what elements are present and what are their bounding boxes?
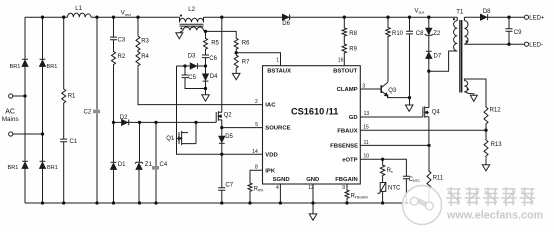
junction R6 R7 BSTAUX node [235, 51, 238, 54]
ground L2 aux [176, 33, 183, 39]
svg-text:VDD: VDD [265, 152, 277, 158]
wire aux to R6 [206, 31, 237, 36]
resistor RIPK [248, 181, 252, 193]
junction C_NTC / bottom rail [405, 201, 408, 204]
svg-text:D5: D5 [225, 134, 233, 140]
wire FBAUX [360, 129, 486, 131]
junction Z1 / gate wire [138, 121, 141, 124]
terminal LED- [524, 42, 528, 46]
junction Z2 column / top rail [427, 16, 430, 19]
diode BR1 top-right [40, 58, 46, 60]
svg-text:eOTP: eOTP [342, 158, 357, 164]
transistor Q4 [422, 107, 424, 117]
wire AC terminals [13, 96, 43, 134]
svg-text:9: 9 [342, 185, 345, 191]
IC U1 CS1610/11 box [263, 66, 361, 184]
svg-text:10: 10 [364, 154, 370, 160]
wire bottom rail [25, 202, 429, 204]
resistor R7 [234, 53, 238, 70]
svg-text:5: 5 [255, 122, 258, 128]
svg-text:IPK: IPK [265, 168, 276, 174]
svg-text:AC: AC [5, 109, 15, 116]
junction Q1 drain / gate wire [194, 121, 197, 124]
wire FBGAIN pin9 [346, 184, 348, 203]
wire SOURCE [222, 127, 263, 129]
svg-text:12: 12 [308, 185, 314, 191]
diode BR1 top-left [22, 58, 28, 60]
junction Z1 / bottom rail [138, 201, 141, 204]
svg-text:R10: R10 [392, 31, 404, 37]
terminal LED+ [524, 15, 528, 19]
junction NTC / bottom rail [381, 201, 384, 204]
zener Z2 [425, 34, 433, 35]
svg-text:FBAUX: FBAUX [337, 128, 357, 134]
svg-text:SOURCE: SOURCE [265, 126, 290, 132]
transformer T1 secondary [464, 21, 468, 44]
svg-text:R2: R2 [118, 54, 126, 60]
junction C1 / bottom rail [62, 201, 65, 204]
junction bridge right / top rail [41, 16, 44, 19]
wire VDD [177, 66, 263, 154]
resistor R3 [136, 34, 140, 52]
svg-text:CS1610 /11: CS1610 /11 [291, 106, 338, 116]
svg-text:C3: C3 [118, 38, 126, 44]
junction C9 / LED+ wire [507, 16, 510, 19]
svg-text:BR1: BR1 [47, 64, 58, 70]
svg-text:C6: C6 [209, 56, 217, 62]
wire R1 C1 column [63, 17, 65, 203]
junction Q2 drain / top rail [220, 16, 223, 19]
resistor R10 [386, 26, 390, 39]
wire IAC [138, 17, 263, 104]
junction C5 / D3 node [183, 64, 186, 67]
svg-text:C2: C2 [84, 110, 92, 116]
svg-text:D7: D7 [434, 53, 442, 59]
svg-text:R9: R9 [349, 47, 357, 53]
terminal AC neutral [9, 132, 13, 136]
wire Z2 D7 column [428, 17, 430, 71]
ground R13 [482, 165, 489, 171]
capacitor C1 [60, 139, 67, 142]
svg-text:FBGAIN: FBGAIN [335, 177, 358, 183]
diode D4 [203, 80, 209, 82]
svg-text:BSTAUX: BSTAUX [267, 68, 291, 74]
ground main [309, 214, 317, 220]
capacitor C9 [506, 29, 513, 32]
diode D3 [196, 63, 198, 69]
wire GD [360, 116, 423, 118]
resistor R1 [62, 87, 66, 105]
wire Q3 collector link [388, 96, 410, 98]
svg-text:FBSENSE: FBSENSE [330, 144, 358, 150]
wire BSTAUX [236, 51, 280, 65]
svg-text:Q3: Q3 [388, 88, 397, 94]
wire C2 column [96, 17, 98, 203]
resistor R13 [484, 138, 488, 158]
junction C5 / D4 ground node [204, 87, 207, 90]
transformer T1 aux winding [464, 81, 467, 92]
inductor L1 [68, 13, 92, 17]
wire C8 column [409, 17, 411, 105]
wire CLAMP [360, 88, 381, 90]
wire C3 R2 D1 column [113, 17, 115, 203]
svg-text:13: 13 [364, 111, 370, 117]
svg-text:Q4: Q4 [432, 109, 441, 115]
transformer L2 primary [180, 17, 204, 22]
junction R12 R13 / FBAUX wire [484, 129, 487, 132]
junction D2 anode node [112, 121, 115, 124]
wire GND pin12 [312, 184, 314, 214]
junction Q4 source / FBSENSE wire [427, 144, 430, 147]
resistor R9 [342, 42, 346, 55]
svg-text:4: 4 [276, 185, 279, 191]
wire bridge right column [42, 17, 44, 203]
wire Q4 source to R11 [428, 117, 430, 203]
svg-text:D4: D4 [210, 74, 218, 80]
svg-text:BR1: BR1 [8, 165, 19, 171]
svg-text:D8: D8 [483, 9, 491, 15]
svg-text:15: 15 [363, 124, 369, 130]
ground R7 [232, 73, 240, 79]
svg-text:BSTOUT: BSTOUT [333, 68, 358, 74]
wire snubber to T1 primary [429, 51, 457, 71]
junction C3 column / top rail [112, 16, 115, 19]
wire R10 column [387, 17, 389, 82]
junction R10 column / top rail [386, 16, 389, 19]
wire secondary top to LED+ [464, 17, 526, 20]
diode D7 [426, 50, 432, 52]
capacitor CNTC [403, 176, 410, 179]
resistor R2 [112, 50, 116, 67]
junction C8 column / top rail [408, 16, 411, 19]
wire Z1 column [138, 122, 141, 203]
junction D5 / VDD wire [220, 153, 223, 156]
junction pin4 / bottom rail [279, 201, 282, 204]
thermistor NTC [380, 183, 386, 192]
capacitor C3 [110, 37, 117, 40]
wire T1 aux to R12 R13 [464, 79, 486, 165]
wire T1 aux bottom to ground [464, 92, 473, 95]
svg-text:LED-: LED- [529, 43, 543, 49]
wire R7 to ground [235, 70, 237, 74]
svg-text:T1: T1 [456, 9, 464, 15]
capacitor C6 [202, 55, 209, 58]
wire C7 column [221, 154, 223, 203]
resistor R11 [427, 169, 431, 191]
junction C9 / LED- wire [507, 43, 510, 46]
diode D6 [289, 14, 291, 20]
terminal AC line [9, 94, 13, 98]
wire Q4 drain riser [428, 71, 430, 107]
zener Z1 [135, 162, 143, 163]
diode D8 [487, 14, 489, 20]
svg-text:R11: R11 [433, 175, 444, 181]
svg-text:BR1: BR1 [10, 64, 21, 70]
svg-text:8: 8 [255, 165, 258, 171]
svg-text:D2: D2 [120, 115, 128, 121]
wire IPK [250, 170, 263, 203]
junction AC line / bridge [23, 94, 26, 97]
svg-text:BR1: BR1 [47, 165, 58, 171]
transformer L2 aux winding [183, 27, 203, 30]
svg-text:C4: C4 [160, 162, 168, 168]
junction D1 / bottom rail [112, 201, 115, 204]
junction bridge right / bottom rail [41, 201, 44, 204]
wire R5 C6 D4 column [205, 31, 207, 95]
wire D2 to Q2 gate [114, 121, 217, 123]
svg-text:C7: C7 [225, 183, 233, 189]
junction Q3 collector / C8 node [408, 96, 411, 99]
watermark elecfans [403, 186, 442, 225]
svg-text:LED+: LED+ [529, 16, 545, 22]
svg-text:R4: R4 [141, 54, 149, 60]
diode BR1 bottom-left [22, 160, 28, 162]
wire FBSENSE [360, 144, 429, 146]
junction R_IPK / bottom rail [248, 201, 251, 204]
svg-text:D6: D6 [282, 21, 290, 27]
diode D2 [128, 120, 130, 126]
wire C5 column [185, 66, 206, 89]
junction C4 / bottom rail [154, 201, 157, 204]
svg-text:Mains: Mains [2, 116, 19, 123]
resistor RFBGAIN [345, 188, 349, 200]
resistor R4 [136, 50, 140, 68]
wire bridge left column [24, 17, 26, 203]
junction R1 column / top rail [62, 16, 65, 19]
wire eOTP [360, 159, 406, 203]
svg-text:11: 11 [364, 140, 369, 146]
junction Q2 source / SOURCE wire [220, 126, 223, 129]
junction R8 column / top rail [343, 16, 346, 19]
wire C4 column [155, 122, 157, 203]
resistor R5 [204, 36, 208, 51]
resistor R8 [342, 26, 346, 38]
junction C7 / bottom rail [220, 201, 223, 204]
svg-text:R8: R8 [349, 31, 357, 37]
wire Q2 column [221, 17, 223, 154]
svg-text:Z2: Z2 [433, 31, 441, 37]
svg-text:D3: D3 [188, 54, 196, 60]
wire Q1 drain riser [195, 122, 197, 143]
svg-text:R3: R3 [141, 39, 149, 45]
resistor Rs [380, 163, 384, 178]
junction C4 / gate wire [154, 121, 157, 124]
wire D3 row [177, 65, 206, 67]
svg-text:NTC: NTC [388, 185, 401, 191]
svg-text:R5: R5 [211, 41, 219, 47]
svg-text:L1: L1 [75, 6, 82, 12]
svg-text:C8: C8 [416, 31, 424, 37]
capacitor C2 [93, 110, 100, 114]
ground D4 node [202, 95, 210, 101]
junction Rs / eOTP wire [381, 158, 384, 161]
junction D3 / C6 node [204, 64, 207, 67]
capacitor C8 [406, 31, 413, 34]
capacitor C7 [218, 188, 225, 191]
svg-text:2: 2 [255, 99, 258, 105]
svg-text:GD: GD [349, 115, 358, 121]
svg-text:Q2: Q2 [224, 113, 233, 119]
capacitor C5 [182, 75, 189, 78]
svg-text:SGND: SGND [273, 177, 290, 183]
svg-text:14: 14 [252, 149, 258, 155]
junction C2 column / top rail [95, 16, 98, 19]
svg-text:C1: C1 [70, 139, 78, 145]
ground C8 node [405, 105, 413, 111]
junction L2 aux / R5 node [204, 30, 207, 33]
junction R3 column / top rail [136, 16, 139, 19]
svg-text:1: 1 [276, 58, 279, 64]
svg-text:R6: R6 [242, 41, 250, 47]
svg-text:CLAMP: CLAMP [337, 87, 358, 93]
junction R_FBGAIN / bottom rail [345, 201, 348, 204]
diode BR1 bottom-right [40, 160, 46, 162]
junction D7 / T1 primary / Q4 drain node [427, 70, 430, 73]
transistor Q2 [215, 112, 217, 122]
svg-text:L2: L2 [188, 7, 195, 13]
wire C9 column [508, 17, 510, 44]
diode D1 [111, 161, 117, 163]
transistor Q3 [380, 85, 382, 93]
svg-text:R7: R7 [242, 60, 250, 66]
svg-text:C5: C5 [188, 75, 196, 81]
capacitor C4 [152, 166, 159, 170]
svg-text:R12: R12 [490, 108, 502, 114]
ground T1 aux [470, 95, 477, 101]
svg-text:R13: R13 [491, 142, 503, 148]
wire SGND pin4 [279, 184, 281, 203]
junction AC neutral / bridge [41, 132, 44, 135]
resistor R6 [234, 36, 238, 51]
svg-text:Q1: Q1 [166, 136, 175, 142]
svg-text:D1: D1 [118, 162, 126, 168]
transformer T1 primary [454, 21, 458, 51]
svg-text:IAC: IAC [265, 103, 276, 109]
svg-text:C9: C9 [514, 30, 522, 36]
wire secondary bottom to LED- [464, 43, 526, 45]
junction pin12 / bottom rail [311, 201, 314, 204]
svg-text:Z1: Z1 [145, 162, 153, 168]
svg-text:www.elecfans.com: www.elecfans.com [446, 210, 543, 222]
wire Rs NTC column [382, 159, 384, 203]
svg-text:R1: R1 [68, 94, 76, 100]
svg-text:GND: GND [306, 177, 319, 183]
resistor R12 [484, 105, 488, 126]
transformer L2 core [180, 24, 204, 26]
wire R8 R9 pin16 column [343, 17, 345, 65]
svg-text:3: 3 [362, 84, 365, 90]
transformer T1 core [460, 20, 462, 93]
diode D5 [219, 142, 225, 144]
transistor Q1 [178, 132, 180, 144]
wire top rail [25, 16, 457, 18]
junction C2 / bottom rail [95, 201, 98, 204]
svg-text:16: 16 [338, 58, 344, 64]
